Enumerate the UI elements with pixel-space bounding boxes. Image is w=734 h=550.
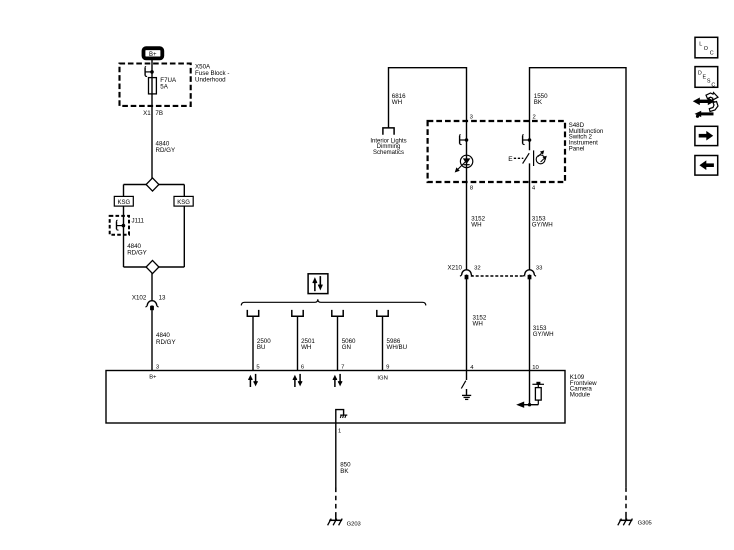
svg-text:B+: B+ [149, 52, 157, 58]
svg-text:WH: WH [301, 344, 311, 351]
svg-text:13: 13 [159, 294, 166, 301]
svg-text:2: 2 [533, 114, 536, 120]
svg-text:G203: G203 [347, 521, 361, 527]
svg-text:RD/GY: RD/GY [156, 147, 176, 154]
svg-text:3: 3 [470, 114, 474, 120]
svg-text:10: 10 [532, 365, 539, 371]
svg-text:5: 5 [256, 364, 260, 370]
svg-text:BK: BK [340, 468, 349, 475]
svg-text:33: 33 [536, 265, 543, 271]
svg-text:KSG: KSG [177, 200, 190, 206]
svg-text:5A: 5A [160, 84, 168, 91]
svg-text:WH/BU: WH/BU [387, 344, 408, 351]
svg-text:Module: Module [570, 392, 591, 399]
svg-text:9: 9 [386, 364, 389, 370]
svg-text:X210: X210 [448, 264, 463, 271]
svg-text:4840: 4840 [156, 332, 170, 339]
svg-text:BK: BK [534, 99, 543, 106]
svg-text:G305: G305 [638, 521, 652, 527]
svg-text:J111: J111 [132, 217, 145, 224]
svg-text:RD/GY: RD/GY [127, 249, 147, 256]
svg-text:7: 7 [341, 364, 344, 370]
svg-text:7B: 7B [155, 110, 163, 117]
svg-text:IGN: IGN [377, 375, 387, 381]
svg-text:8: 8 [470, 185, 474, 191]
svg-text:C: C [711, 83, 715, 89]
svg-text:D: D [698, 70, 702, 76]
svg-text:1: 1 [338, 428, 341, 434]
svg-text:KSG: KSG [117, 200, 130, 206]
svg-text:E: E [703, 75, 707, 81]
svg-text:RD/GY: RD/GY [156, 339, 176, 346]
svg-text:GN: GN [342, 344, 351, 351]
svg-text:X1: X1 [143, 110, 151, 117]
svg-text:Panel: Panel [569, 146, 585, 153]
svg-text:WH: WH [392, 99, 402, 106]
svg-text:Underhood: Underhood [195, 77, 226, 84]
svg-text:X102: X102 [132, 294, 147, 301]
svg-text:4: 4 [532, 185, 536, 191]
svg-text:E: E [508, 156, 513, 163]
svg-text:GY/WH: GY/WH [532, 222, 553, 229]
svg-text:C: C [710, 51, 714, 57]
svg-text:L: L [699, 41, 702, 47]
svg-text:6: 6 [301, 364, 305, 370]
svg-text:S: S [707, 79, 711, 85]
svg-text:B+: B+ [149, 375, 157, 381]
svg-text:BU: BU [257, 344, 266, 351]
svg-text:32: 32 [474, 265, 481, 271]
svg-text:WH: WH [473, 321, 483, 328]
svg-text:GY/WH: GY/WH [533, 331, 554, 338]
svg-text:3: 3 [156, 364, 160, 370]
svg-text:Schematics: Schematics [373, 150, 404, 156]
svg-text:WH: WH [471, 222, 481, 229]
svg-text:O: O [704, 46, 708, 52]
